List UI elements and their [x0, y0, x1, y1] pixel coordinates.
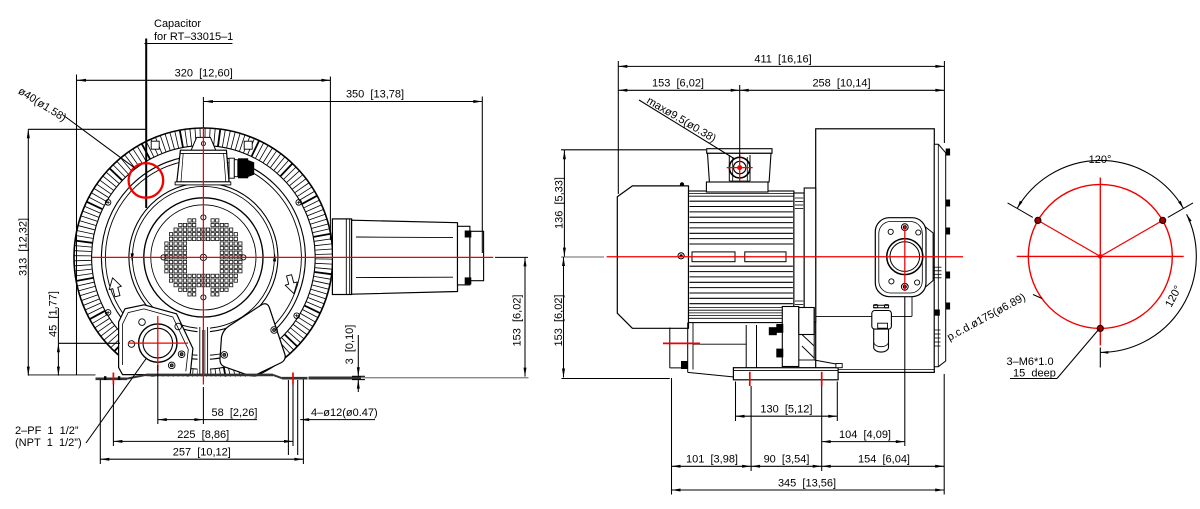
side view: exhaust pipe lines	[816, 297, 912, 317]
front view: ring screws	[105, 200, 301, 319]
dim 313 extension lines	[28, 128, 147, 130]
side view: motor end bell	[617, 182, 688, 328]
front view: red vertical centerline	[202, 128, 204, 385]
dim 313 [12,32]	[18, 129, 30, 375]
svg-text:153 [6,02]: 153 [6,02]	[652, 78, 704, 90]
dim 153 [6,02] top	[618, 78, 739, 92]
dim 320 [12,60]	[77, 68, 330, 82]
dim 153/258 extension	[739, 85, 741, 158]
svg-text:3–M6*1.0: 3–M6*1.0	[1007, 356, 1054, 368]
dim 258 [10,14]	[740, 78, 945, 92]
label 120 top	[1089, 154, 1112, 166]
svg-text:136 [5,33]: 136 [5,33]	[554, 177, 566, 229]
side view: rear plate terminal nubs	[946, 149, 950, 310]
svg-text:225 [8,86]: 225 [8,86]	[177, 429, 229, 441]
svg-text:3 [0,10]: 3 [0,10]	[344, 325, 356, 365]
side view: red motor mount mark	[663, 342, 700, 344]
side view: red horizontal centerline	[607, 256, 963, 258]
label ø40 leader	[63, 115, 135, 168]
dim 225 extension lines	[113, 385, 293, 447]
front view: red horizontal centerline	[92, 256, 493, 258]
front view: ring notch lugs	[151, 141, 252, 149]
front view: outlet cover plate	[220, 304, 285, 376]
front view: rotation arrow left	[106, 276, 123, 298]
front view: center support column	[198, 326, 210, 375]
front view: grille screws	[161, 215, 246, 300]
side view: motor nameplates	[692, 252, 786, 262]
front view: foot hole marks	[104, 376, 120, 380]
dim 257 [10,12]	[100, 447, 303, 461]
dim 130 extension lines	[736, 382, 838, 422]
dim 90 [3,54]	[751, 454, 822, 468]
side view: cable entry target	[729, 157, 750, 178]
side view: rear cover plate	[934, 144, 945, 367]
svg-text:for RT–33015–1: for RT–33015–1	[154, 31, 233, 43]
svg-text:345 [13,56]: 345 [13,56]	[778, 477, 836, 489]
side view: port flange plate	[875, 218, 933, 297]
dim 153 [6,02] front	[511, 257, 526, 376]
label 2-PF 1 1/2"	[15, 425, 82, 449]
dim 130 [5,12]	[736, 404, 838, 418]
front view: intake port	[139, 324, 177, 362]
capacitor red circle	[129, 163, 164, 198]
label maxø9.5 leader	[639, 100, 734, 159]
side view: motor lower body	[688, 323, 777, 377]
dim 58 [2,26]	[158, 407, 258, 421]
muffler outlet	[470, 231, 484, 280]
front view: outer ring circles	[74, 128, 333, 387]
side view: port bore	[887, 239, 923, 275]
label 2-PF leader	[86, 359, 146, 444]
label 120 right	[1163, 284, 1184, 310]
dim 101 [3,98]	[672, 454, 752, 468]
side view: motor foot bracket	[670, 328, 688, 370]
dim 411 [16,16]	[618, 54, 944, 68]
dim 104 extension lines	[822, 297, 905, 472]
dim 58 extension lines	[158, 365, 204, 424]
dim 153 mid extension	[561, 256, 604, 258]
bolt circle: red radial lines	[1038, 220, 1163, 256]
front view: clip below base line	[60, 377, 360, 395]
dim 350 [13,78]	[204, 89, 482, 103]
side view: blower housing	[816, 129, 935, 373]
label ø40(ø1.58)	[16, 85, 69, 124]
front view: perforated grille grid	[165, 219, 242, 296]
svg-text:153 [6,02]: 153 [6,02]	[511, 295, 523, 347]
side view: red port centerline	[904, 225, 906, 291]
svg-text:313 [12,32]: 313 [12,32]	[18, 218, 30, 276]
muffler body	[352, 220, 458, 294]
svg-text:4–ø12(ø0.47): 4–ø12(ø0.47)	[311, 407, 378, 419]
svg-text:130 [5,12]: 130 [5,12]	[760, 404, 812, 416]
dim 3 [0,10]	[344, 325, 365, 392]
front view: cable gland	[229, 158, 254, 178]
dim 101/345 extension	[672, 374, 945, 495]
dim 411 extension lines	[618, 61, 944, 194]
svg-text:(NPT 1 1/2”): (NPT 1 1/2”)	[15, 437, 82, 449]
svg-text:45 [1,77]: 45 [1,77]	[48, 291, 60, 337]
dim 104 [4,09]	[822, 429, 905, 443]
dim 45 [1,77]	[48, 291, 60, 376]
dim 136 extension line	[561, 149, 706, 151]
label maxø9.5(ø0.38)	[644, 95, 717, 145]
front view: volute direction arrows	[131, 253, 276, 261]
label: Capacitor for RT-33015-1	[144, 18, 233, 60]
front view: red base bolt marks	[113, 373, 293, 385]
dim 153 left extension	[495, 256, 528, 258]
dim 154 [6,04]	[822, 454, 945, 468]
svg-text:153 [6,02]: 153 [6,02]	[553, 295, 565, 347]
front view: housing circles	[101, 155, 305, 359]
svg-text:Capacitor: Capacitor	[154, 18, 201, 30]
front view: top mounting pad	[191, 137, 216, 150]
svg-text:15 deep: 15 deep	[1013, 368, 1056, 380]
dim 350 extension line	[203, 97, 482, 254]
bolt circle: red p.c.d. circle	[1028, 184, 1172, 328]
side view: motor-housing adapter	[794, 188, 816, 322]
bolt circle: center point	[1098, 255, 1102, 259]
side view: drain muffler	[874, 329, 889, 352]
svg-text:350 [13,78]: 350 [13,78]	[346, 89, 404, 101]
front view: rotation arrow right	[283, 274, 300, 296]
bolt circle: red crosshair	[1017, 178, 1184, 346]
svg-text:411 [16,16]: 411 [16,16]	[754, 54, 811, 66]
capacitor leader line	[145, 39, 147, 209]
bolt circle: angle tick marks	[1008, 203, 1193, 368]
front view: intake flange plate	[119, 305, 193, 375]
side view: foot plate	[733, 364, 842, 380]
muffler end cap	[458, 226, 470, 285]
label 3-M6*1.0 15 deep	[1007, 356, 1056, 380]
svg-text:90 [3,54]: 90 [3,54]	[764, 454, 810, 466]
front view: red port centerlines	[128, 316, 188, 371]
side view: motor end bell center screw	[678, 253, 684, 259]
front view: base plate	[28, 375, 528, 379]
muffler flange	[332, 219, 351, 295]
front view: intake flange bolts	[128, 319, 185, 369]
side view: cable entry red target	[727, 155, 753, 181]
front view: terminal box	[175, 150, 231, 185]
dim 153 [6,02] mid	[553, 257, 565, 378]
front view: serrated cooling ring teeth	[75, 129, 333, 387]
side view: cable gland boss	[729, 155, 750, 181]
dim 320 extension lines	[77, 75, 331, 375]
bolt circle: bolt holes	[1035, 217, 1166, 331]
muffler hose barbs	[465, 231, 472, 285]
side view: port flange bolts	[888, 224, 921, 290]
side view: support legs	[746, 325, 756, 368]
svg-text:2–PF 1 1/2”: 2–PF 1 1/2”	[15, 425, 79, 437]
dim 225 [8,86]	[113, 429, 293, 443]
label 4-ø12(ø0.47)	[300, 407, 377, 421]
svg-text:120°: 120°	[1089, 154, 1112, 166]
side view: motor cooling fins	[689, 191, 794, 323]
side view: drain clamp	[872, 305, 892, 330]
side view: rear plate louvers	[934, 267, 942, 346]
bolt circle: 120 deg arcs	[1017, 160, 1196, 353]
label 3-M6 leader	[1010, 329, 1100, 379]
svg-text:58 [2,26]: 58 [2,26]	[212, 407, 258, 419]
svg-text:257 [10,12]: 257 [10,12]	[173, 447, 231, 459]
dim 136 [5,33]	[554, 150, 566, 256]
dim 345 [13,56]	[672, 477, 945, 491]
svg-text:258 [10,14]: 258 [10,14]	[812, 78, 870, 90]
front view: inner cover circles	[144, 198, 263, 317]
svg-text:154 [6,04]: 154 [6,04]	[858, 454, 910, 466]
dim 257 extension lines	[100, 380, 303, 465]
side view: blower pedestal	[776, 307, 836, 367]
svg-text:104 [4,09]: 104 [4,09]	[839, 429, 891, 441]
dim 45 extension line	[58, 342, 120, 344]
label 4-ø12 hole lines	[288, 380, 297, 455]
side view: base line left extension	[562, 378, 670, 380]
label p.c.d.ø175(ø6.89)	[945, 291, 1028, 343]
side view: red foot bolt marks	[750, 372, 822, 386]
svg-text:320 [12,60]: 320 [12,60]	[175, 68, 233, 80]
side view: terminal box	[706, 149, 772, 192]
label p.c.d. leader	[1033, 295, 1042, 299]
svg-text:101 [3,98]: 101 [3,98]	[686, 454, 738, 466]
